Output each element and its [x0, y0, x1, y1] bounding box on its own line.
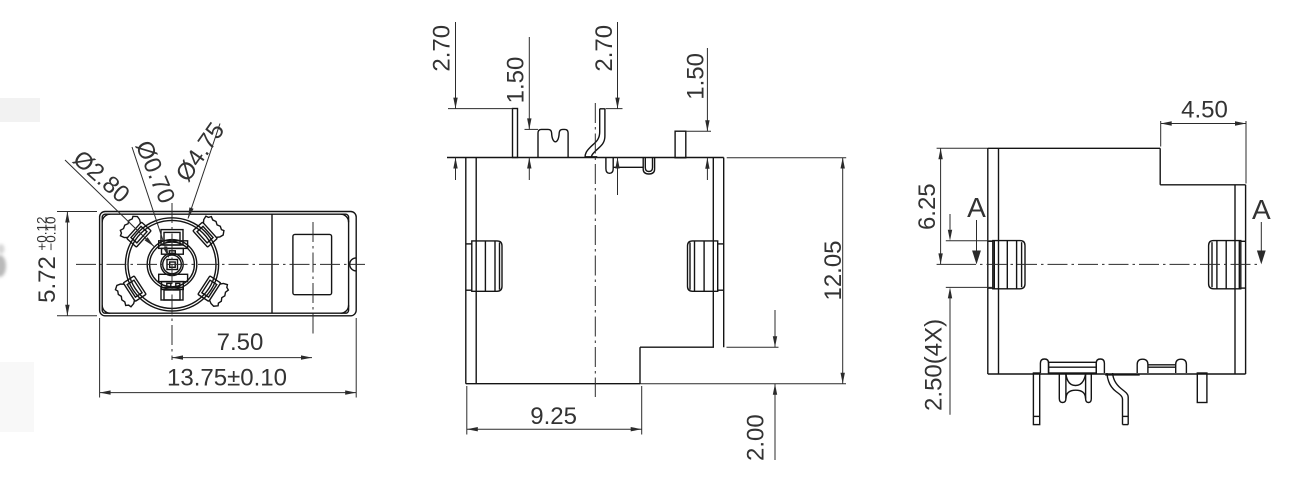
- svg-text:2.70: 2.70: [591, 25, 618, 72]
- view1 horizontal centerline: [76, 263, 365, 265]
- dim 9.25 text: [530, 403, 577, 430]
- svg-text:5.72: 5.72: [34, 256, 61, 303]
- view3 top step: [1160, 148, 1245, 185]
- view3 bump pair: [1105, 359, 1186, 375]
- dim 2.70 left text: [429, 25, 456, 72]
- svg-text:7.50: 7.50: [217, 329, 264, 356]
- svg-text:2.50(4X): 2.50(4X): [921, 319, 948, 411]
- dim 1.50 left ext: [525, 128, 539, 130]
- view3 left wall: [988, 148, 999, 374]
- dim 1.50 right text: [683, 53, 710, 100]
- view2 right latch box: [688, 241, 724, 291]
- dim 2.70 left line: [453, 22, 457, 180]
- dim 13.75 text: [167, 364, 287, 391]
- dim 1.50 left text: [503, 57, 530, 104]
- label D0.70: [130, 137, 180, 208]
- view1 upper contact plate: [159, 241, 188, 254]
- dim 2.00 text: [743, 414, 770, 461]
- dim 5.72 text: [34, 216, 61, 302]
- view2 hook strap: [613, 166, 643, 168]
- dim 4.50 text: [1181, 96, 1228, 123]
- dim 1.50 left line: [527, 37, 531, 180]
- view1 bottom slot: [161, 288, 183, 301]
- view1 window centerline: [312, 222, 314, 334]
- view1 body divider edge: [271, 214, 273, 313]
- view2 left wall: [466, 158, 476, 384]
- view3 bottom edge: [988, 373, 1246, 375]
- svg-text:1.50: 1.50: [683, 53, 710, 100]
- view2 contact hook B: [643, 158, 654, 175]
- dim 5.72 extension lines: [57, 212, 97, 316]
- view3 hanging contact: [1059, 373, 1091, 403]
- view1 pin inner ring: [163, 255, 182, 274]
- view1 vertical centerline: [171, 203, 173, 360]
- view1 lower-left tab: [114, 275, 148, 309]
- dim 5.72 line: [65, 212, 69, 316]
- view2 left latch box: [466, 241, 502, 291]
- dim 7.50 line: [172, 355, 312, 359]
- view2 contact hook A: [606, 158, 613, 174]
- view1 body corner arcs: [102, 214, 348, 313]
- view2 bent center pin: [585, 109, 605, 158]
- dim 2.70 right ext: [606, 108, 623, 110]
- dim 2.70 right line: [615, 22, 619, 195]
- view2 left solder pin: [513, 109, 518, 158]
- svg-text:9.25: 9.25: [530, 403, 577, 430]
- svg-text:12.05: 12.05: [820, 240, 847, 300]
- dim 1.50 right ext: [686, 130, 711, 132]
- svg-text:A: A: [967, 192, 986, 223]
- svg-text:6.25: 6.25: [914, 183, 941, 230]
- edge smudge: [0, 244, 6, 277]
- view1 right edge notch: [350, 258, 357, 271]
- dim 9.25 ext lines: [467, 386, 642, 435]
- dim 2.00 line: [773, 310, 777, 460]
- view2 bottom edge: [466, 383, 846, 385]
- svg-text:2.00: 2.00: [743, 414, 770, 461]
- view3 left latch box: [988, 241, 1025, 289]
- dim 2.50 text: [921, 319, 948, 411]
- dim 6.25 line: [938, 148, 942, 264]
- view3 right pin: [1197, 373, 1207, 403]
- svg-text:4.50: 4.50: [1181, 96, 1228, 123]
- view1 body inner outline: [102, 214, 348, 313]
- view1 lower contact plate: [159, 274, 188, 289]
- view1 body outer outline: [100, 212, 357, 316]
- view1 outer barrel inner rim: [128, 220, 216, 308]
- dim 2.70 left ext: [448, 108, 513, 110]
- label D4.75: [171, 118, 231, 187]
- svg-text:2.70: 2.70: [429, 25, 456, 72]
- view3 top edge: [937, 147, 1161, 149]
- view1 pin ring: [161, 253, 183, 275]
- dim 2.50 arrows: [948, 214, 952, 415]
- dim 13.75 line: [100, 390, 357, 394]
- view1 lower-right tab: [197, 274, 231, 308]
- dim 12.05 line: [841, 158, 845, 384]
- svg-text:−0.10: −0.10: [44, 216, 59, 250]
- edge smudge 2: [0, 98, 40, 432]
- svg-text:1.50: 1.50: [503, 57, 530, 104]
- dim 12.05 text: [820, 240, 847, 300]
- view3 bent pin: [1107, 373, 1128, 425]
- view2 vertical centerline: [594, 103, 596, 397]
- view1 upper-right tab: [191, 214, 226, 249]
- dim 2.70 right text: [591, 25, 618, 72]
- dim 2.50 ext lines: [946, 241, 992, 288]
- svg-text:A: A: [1252, 194, 1271, 225]
- view2 bottom step: [640, 347, 779, 384]
- svg-text:13.75±0.10: 13.75±0.10: [167, 364, 287, 391]
- dim 13.75 extension lines: [100, 318, 357, 398]
- dim 7.50 text: [217, 329, 264, 356]
- view1 middle ring inner: [150, 242, 195, 287]
- view1 middle ring outer: [147, 240, 197, 290]
- view1 upper-left tab: [118, 214, 153, 249]
- leader line D2.80: [65, 160, 154, 247]
- dim 4.50 ext lines: [1161, 121, 1246, 184]
- view2 spring clip crown: [538, 129, 568, 157]
- view3 horizontal centerline: [937, 263, 1257, 265]
- dim 4.50 line: [1161, 121, 1246, 125]
- view2 body top edge: [447, 157, 846, 159]
- label D2.80: [68, 145, 135, 208]
- view2 right wall: [713, 158, 723, 348]
- view1 window opening: [293, 234, 332, 294]
- view3 crown bar: [1040, 359, 1104, 373]
- dim 9.25 line: [467, 427, 642, 431]
- view3 right latch box: [1209, 241, 1246, 289]
- section arrow A left: [967, 192, 986, 264]
- view1 top slot: [161, 230, 183, 245]
- view1 center pin square: [167, 260, 178, 270]
- dim 1.50 right line: [705, 48, 709, 180]
- section arrow A right: [1252, 194, 1271, 264]
- view2 right solder pin: [675, 131, 686, 158]
- leader line D4.75: [188, 124, 220, 219]
- view3 right wall: [1235, 185, 1246, 374]
- dim 6.25 text: [914, 183, 941, 230]
- view1 outer barrel circle: [125, 218, 218, 311]
- view3 left pin: [1033, 373, 1039, 425]
- leader line D0.70: [132, 147, 169, 257]
